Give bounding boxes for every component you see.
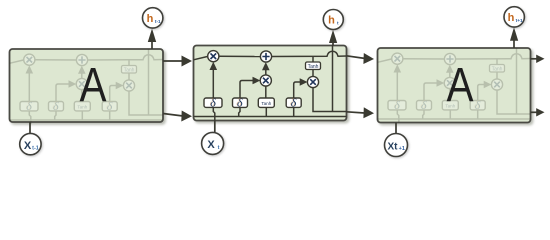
node x t-1 <box>20 133 41 154</box>
wire: x t input line <box>214 121 216 133</box>
wire: arrow up to h t-1 <box>151 40 153 49</box>
wire: arrow up to h t <box>332 41 334 46</box>
svg-text:X: X <box>24 140 32 152</box>
node h t <box>323 10 343 30</box>
svg-text:X: X <box>207 139 215 151</box>
wire: arrow up to h t+1 <box>513 40 515 49</box>
faded cell internals in right block <box>378 48 531 123</box>
block middle LSTM cell (t) <box>194 46 347 121</box>
svg-text:t-1: t-1 <box>155 19 161 25</box>
svg-text:+1: +1 <box>399 146 405 152</box>
svg-text:Xt: Xt <box>388 141 399 152</box>
wire: x t+1 input line <box>395 123 397 134</box>
svg-text:t+1: t+1 <box>516 18 523 24</box>
wire: connector cell-state left to middle <box>163 60 182 62</box>
node h t+1 <box>504 7 524 27</box>
wire: output arrow right edge top <box>531 58 537 60</box>
svg-text:A: A <box>447 59 474 112</box>
node h t-1 <box>143 8 163 28</box>
node x t <box>202 132 224 154</box>
wire: connector cell-state middle to right <box>347 56 365 59</box>
faded cell internals in left block <box>10 49 163 124</box>
svg-text:h: h <box>328 15 335 27</box>
wire: x t-1 input line <box>29 122 31 133</box>
wire: connector hidden-state left to middle <box>163 114 182 116</box>
wire: connector hidden-state middle to right <box>347 112 365 113</box>
svg-text:t: t <box>218 145 220 151</box>
block right cell A (t+1) <box>378 48 531 123</box>
svg-text:h: h <box>147 13 154 25</box>
svg-text:A: A <box>80 59 107 112</box>
block left cell A (t-1) <box>10 49 164 122</box>
svg-text:t-1: t-1 <box>32 146 39 152</box>
node x t+1 <box>385 134 408 157</box>
wire: output arrow right edge bottom <box>531 111 537 113</box>
svg-text:h: h <box>508 12 515 24</box>
cell internals middle block <box>194 46 347 121</box>
